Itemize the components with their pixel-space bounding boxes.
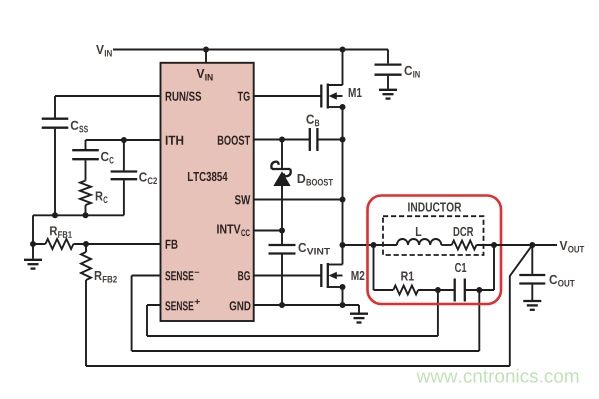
node junction M1 source — [340, 104, 346, 110]
node junction CSS bottom — [52, 212, 58, 218]
wire VOUT — [494, 244, 557, 246]
ground at RFB1 — [24, 244, 42, 269]
node junction CB-SW rail — [340, 137, 346, 143]
wire VIN pin drop — [205, 50, 207, 63]
capacitor CSS — [42, 119, 88, 216]
capacitor CB — [254, 115, 343, 151]
wire VOUT feedback route — [86, 245, 532, 366]
wire SW — [254, 199, 343, 201]
ground below CIN — [379, 90, 397, 99]
capacitor CIN — [375, 50, 420, 89]
node junction SW rail — [340, 197, 346, 203]
node junction M2-GND — [340, 302, 346, 308]
node junction C1 right — [476, 287, 482, 293]
wire R1 to C1 — [418, 289, 455, 291]
wire FB — [33, 243, 161, 245]
label VOUT — [560, 241, 585, 253]
wire C1 to right — [465, 245, 494, 290]
capacitor CVINT — [269, 231, 331, 306]
inductor L — [397, 227, 441, 245]
wire M2 source — [342, 287, 344, 305]
node junction CVINT-GND — [279, 302, 285, 308]
resistor RFB1 — [45, 226, 73, 249]
node junction inductor left — [371, 242, 377, 248]
wire SENSE- route — [132, 276, 480, 352]
watermark — [417, 369, 579, 383]
node junction VOUT-COUT — [529, 242, 535, 248]
wire ITH — [86, 140, 161, 149]
resistor RC — [80, 181, 108, 216]
transistor Q2 : MOSFET M2 — [254, 263, 365, 288]
node junction M2 source — [340, 284, 346, 290]
resistor RFB2 — [81, 244, 117, 366]
wire L to DCR — [441, 244, 451, 246]
node junction FB — [83, 241, 89, 247]
wire VIN top rail — [113, 49, 388, 51]
wire SENSE+ route — [147, 290, 438, 336]
resistor R1 — [393, 272, 418, 295]
node junction R1-C1 — [435, 287, 441, 293]
ground GND pin — [350, 305, 368, 323]
node VIN label — [96, 45, 112, 56]
node junction RFB1 left — [30, 241, 36, 247]
capacitor COUT — [519, 245, 574, 300]
resistor DCR — [452, 227, 477, 250]
diode DBOOST schottky — [271, 140, 333, 231]
node junction SW-out — [340, 242, 346, 248]
capacitor CC — [72, 150, 114, 180]
wire RUN/SS — [55, 96, 161, 118]
node junction ITH-CC2 — [121, 137, 127, 143]
op-amp U1 : IC LTC3854 body — [161, 63, 254, 321]
dashed inductor model box — [383, 216, 484, 255]
wire INTVCC — [254, 230, 282, 232]
wire compensation bottom bus — [33, 215, 124, 244]
node junction VIN-M1 — [340, 47, 346, 53]
node junction BOOST-diode — [279, 137, 285, 143]
capacitor CC2 — [111, 140, 157, 215]
node junction RC bottom — [83, 212, 89, 218]
wire DCR to right node — [476, 244, 494, 246]
wire R1C1 branch left — [374, 245, 394, 290]
wire M1 source down rail — [342, 107, 344, 265]
wire SW node to inductor — [343, 244, 397, 246]
label INDUCTOR — [408, 202, 461, 211]
node junction VIN-IC — [203, 47, 209, 53]
red highlight box — [368, 196, 502, 305]
transistor Q1 : MOSFET M1 — [254, 50, 362, 109]
wire GND pin — [254, 304, 359, 306]
ground below COUT — [523, 301, 541, 310]
capacitor C1 — [455, 263, 467, 302]
node junction INTVCC — [279, 228, 285, 234]
node junction inductor right — [491, 242, 497, 248]
